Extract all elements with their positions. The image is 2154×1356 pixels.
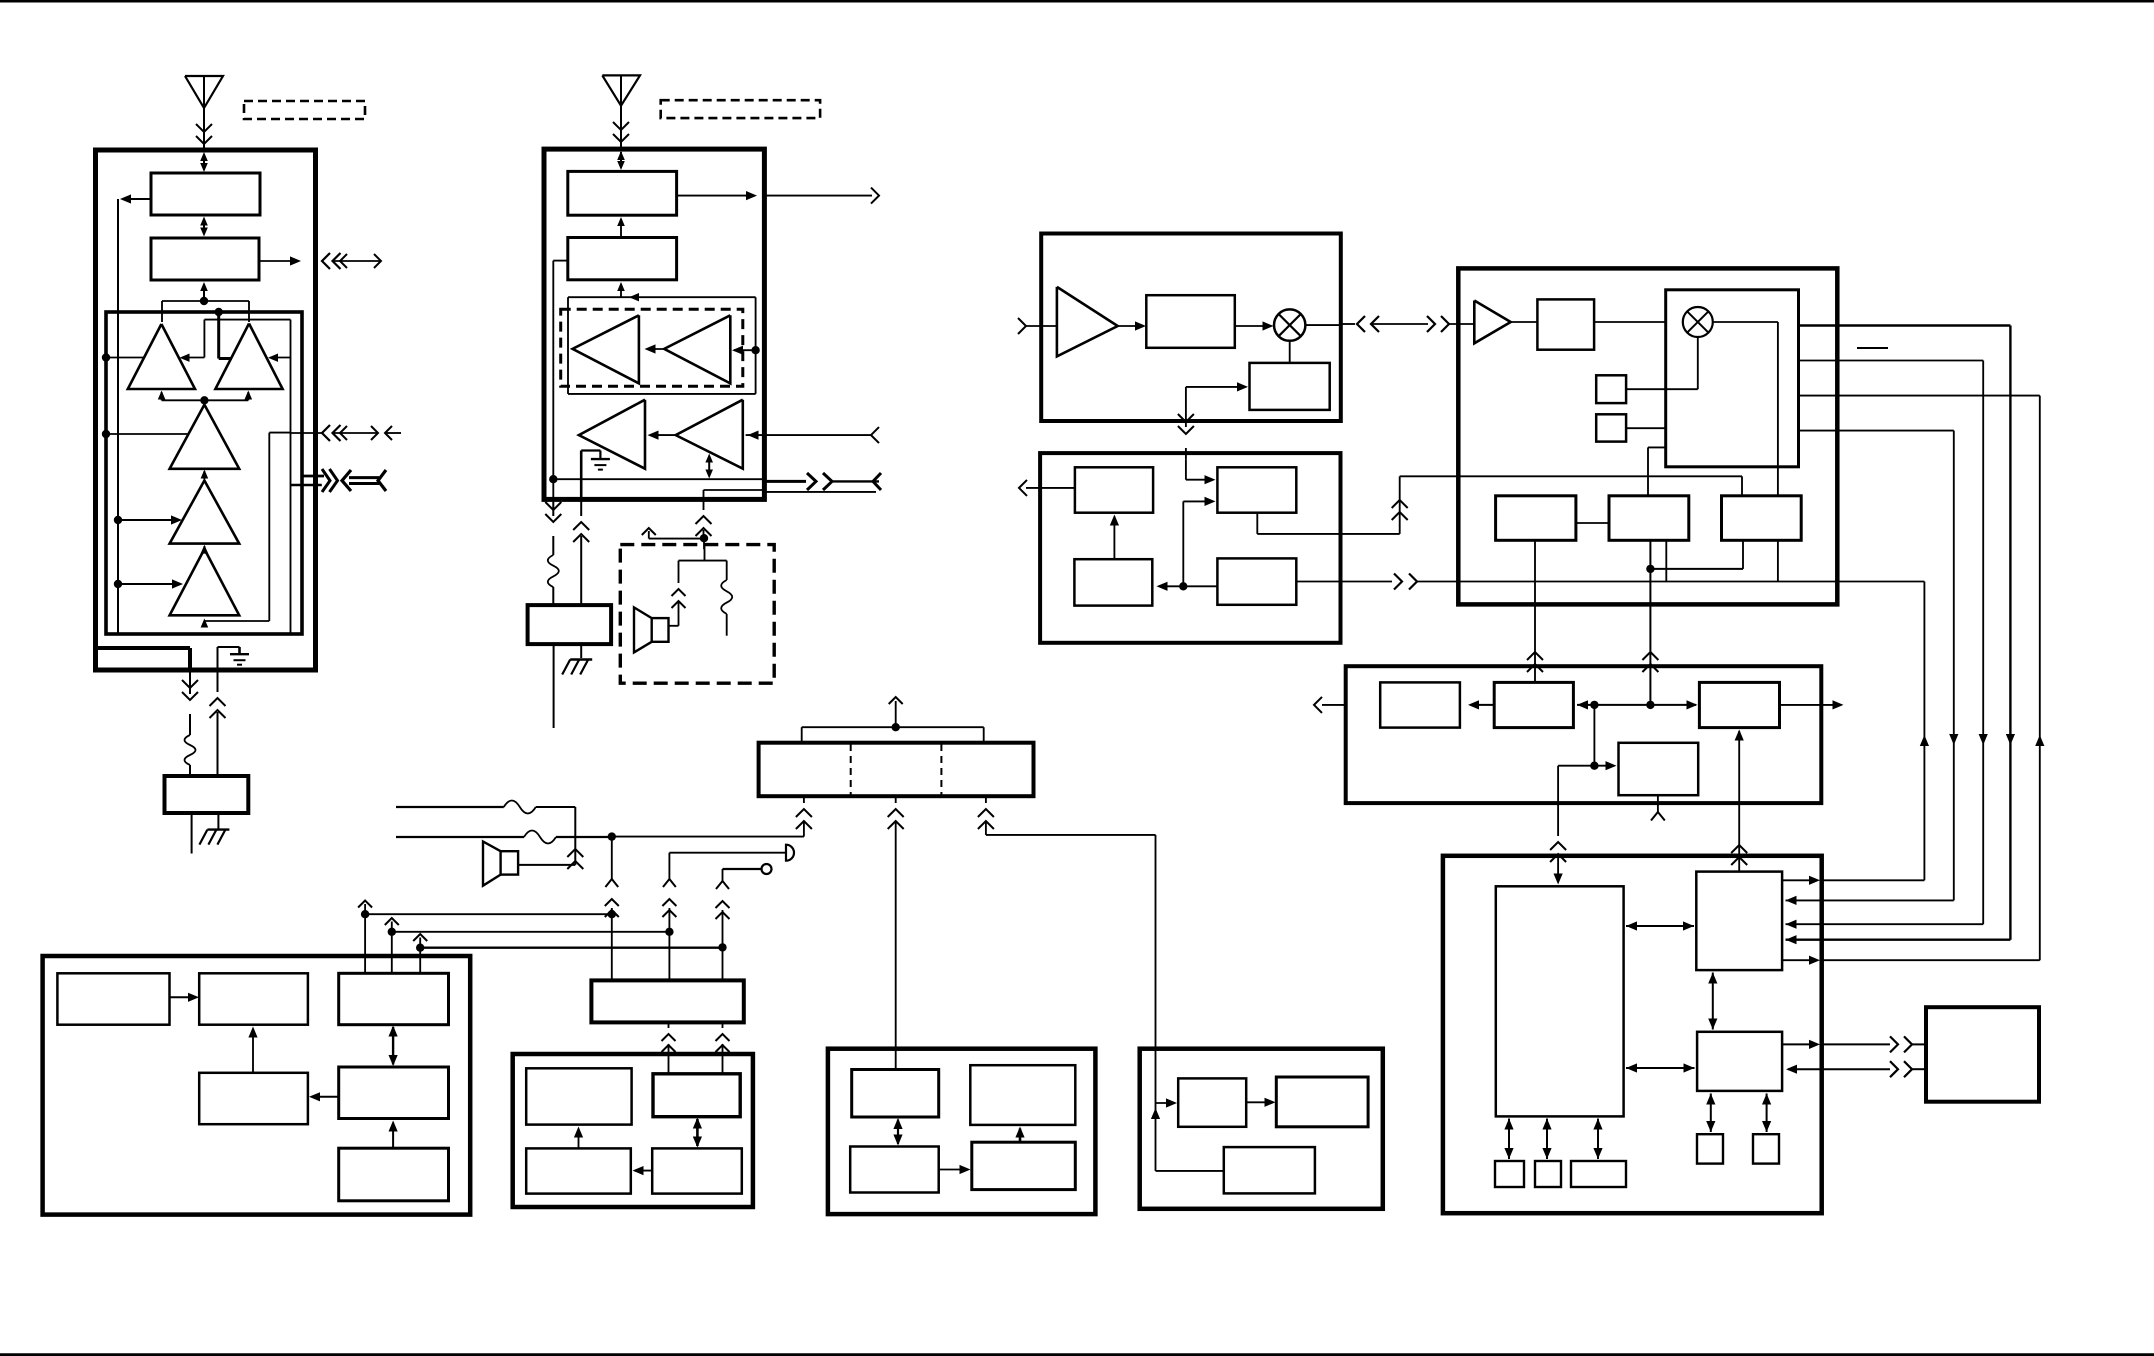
top border line bbox=[0, 0, 2154, 3]
rect R4d bbox=[1619, 743, 1699, 795]
bottom border line bbox=[0, 1353, 2154, 1356]
wire R3d to R3c arrow bbox=[1157, 582, 1218, 591]
rect xtal sq1 bbox=[1495, 1161, 1524, 1187]
wire R4b to R4a arrow bbox=[1468, 700, 1494, 709]
amplifier Q4 pre-driver (up) bbox=[170, 470, 240, 544]
wire R7b bus in line4 bbox=[1786, 935, 2011, 944]
wire feed and feedback into B7a bbox=[1151, 1098, 1224, 1171]
wire antenna2 feedline chevrons bbox=[613, 119, 629, 148]
wire ant-switch output to connector bbox=[259, 256, 301, 265]
module box R3 RX IF unit bbox=[1040, 453, 1340, 643]
wire B6d to B6b arrow bbox=[1015, 1127, 1024, 1143]
module box B7 memory unit bbox=[1140, 1049, 1383, 1209]
wire APC bias feed to Q1 Q2 bbox=[180, 320, 291, 362]
wire R3 output arrow left bbox=[1019, 480, 1075, 496]
amplifier Q1 (top-left, up) bbox=[128, 324, 195, 389]
dashed label box (antenna2) bbox=[661, 100, 820, 118]
module box R7 CPU unit bbox=[1443, 856, 1822, 1213]
amplifier RX A4 (lower-right) bbox=[676, 400, 743, 469]
rect TX VCO R1b bbox=[1250, 363, 1330, 410]
wire supply line L2 bbox=[385, 918, 670, 936]
rect sq3 bbox=[1697, 1134, 1723, 1163]
rect R4a bbox=[1380, 682, 1460, 727]
wire supply line L1 bbox=[358, 901, 616, 919]
module inner PA box (box1) bbox=[106, 312, 302, 634]
amplifier RX A1 (left) bbox=[573, 315, 639, 383]
wire R7a sub bidir arrows bbox=[1504, 1119, 1602, 1160]
module inner PLL IC box bbox=[1666, 290, 1799, 467]
wire branch arrow into R3b lower bbox=[1179, 497, 1215, 591]
ground G3 (box2 internal) bbox=[581, 451, 610, 500]
wire R7c to R8 upper with connector bbox=[1782, 1036, 1926, 1052]
wire thick supply step (box1 bottom-left) bbox=[96, 648, 191, 670]
wire R3b stub to PLL reference bbox=[1257, 513, 1399, 534]
wire bus line C y395 bbox=[1799, 396, 2040, 961]
wire box6 outputs to B5b bbox=[662, 1022, 730, 1073]
wire B5d to B5c arrow bbox=[633, 1166, 653, 1175]
rect R3b IF amp bbox=[1217, 467, 1296, 512]
rect B4a bbox=[57, 973, 169, 1024]
wire RF line out thick (box2) bbox=[764, 480, 806, 483]
wire riser x1400 with chevrons bbox=[1392, 476, 1408, 534]
wire APC rail vertical x118 bbox=[117, 199, 119, 634]
wire A2 to A1 arrow bbox=[645, 344, 665, 353]
wire handset lower line with coil to left bbox=[396, 831, 612, 844]
wire BPF left branch down bbox=[549, 261, 568, 500]
wire R7b up-feed to R4c bbox=[1731, 730, 1747, 872]
wire R7a-R7c bidir arrow bbox=[1626, 1063, 1695, 1072]
wire APC loop right riser x291 bbox=[290, 358, 292, 635]
amplifier Q3 driver (up) bbox=[170, 405, 240, 469]
rect B5a bbox=[526, 1068, 631, 1124]
wire speaker box internal bracket bbox=[669, 545, 727, 626]
dashed speaker box bbox=[620, 545, 774, 684]
wire bidir arrow antenna to duplexer bbox=[200, 152, 208, 172]
wire bidir arrow duplexer to ant-switch bbox=[200, 217, 208, 237]
amplifier R2 input buffer bbox=[1474, 301, 1537, 344]
rect Rb loop filter bbox=[1609, 496, 1689, 541]
mixer M2 bbox=[1683, 307, 1713, 337]
wire R4c output arrow right bbox=[1780, 700, 1844, 709]
wire coil branch in speaker box bbox=[721, 561, 732, 636]
wire PA output junction bracket bbox=[162, 282, 249, 322]
wire supply line L3 thick bbox=[413, 934, 722, 952]
wire box1 to battery-box left lead with coil bbox=[182, 670, 198, 776]
module box R1 TX IF unit bbox=[1041, 234, 1341, 422]
wire branch down to R7a bbox=[1550, 766, 1594, 885]
terminal small circle (PTT) bbox=[723, 864, 772, 874]
wire B4f to B4e arrow bbox=[389, 1121, 398, 1149]
wire B7a to B7b arrow bbox=[1246, 1098, 1275, 1107]
rect R7b interface bbox=[1696, 872, 1782, 971]
connector RF chevrons (box1 out) bbox=[322, 469, 338, 492]
wire VCO input arrow from below bbox=[1178, 382, 1248, 459]
wire B5b-B5d bidir arrow bbox=[693, 1118, 702, 1148]
wire R4 output arrow left bbox=[1314, 697, 1346, 713]
wire long run y476 into R2 Rc bbox=[1400, 476, 1742, 496]
wire loop bottom x118 to x291 bbox=[118, 633, 291, 635]
mixer M1 bbox=[1274, 309, 1305, 340]
wire B5c to B5a arrow bbox=[574, 1127, 583, 1149]
microphone MIC1 bbox=[669, 845, 794, 861]
wire mixer2 output right-down bbox=[1713, 322, 1778, 496]
rect Ra charge pump bbox=[1496, 496, 1576, 541]
rect R2a input filter bbox=[1537, 299, 1665, 349]
ground G1 (box1 internal) bbox=[218, 647, 250, 670]
rect B5b bbox=[653, 1074, 740, 1117]
rect B7b bbox=[1276, 1077, 1368, 1127]
wire mic line down with break bbox=[662, 853, 676, 981]
wire antenna1 feedline with connector chevrons bbox=[196, 121, 212, 148]
rect RX filter B3R bbox=[528, 605, 612, 644]
wire R8 to R7c lower with connector bbox=[1786, 1061, 1926, 1077]
wire L-line drops into B4c bbox=[365, 914, 420, 973]
wire R7b bus in line3 bbox=[1786, 920, 1984, 929]
speaker SP2 (handset) bbox=[483, 842, 575, 886]
rect B4c bbox=[339, 973, 449, 1024]
module box B6 logic unit bbox=[828, 1049, 1096, 1214]
wire filter to mixer arrow bbox=[1235, 321, 1274, 330]
wire PLL box stub to Rb bbox=[1648, 447, 1666, 495]
wire Rb output down to R4 with dot bbox=[1642, 540, 1658, 705]
wire B6c to B6d arrow bbox=[939, 1165, 971, 1174]
wire B4d to B4b arrow bbox=[248, 1027, 257, 1073]
rect B5d bbox=[652, 1148, 742, 1193]
wire mixer1 LO feed bbox=[1289, 341, 1291, 363]
wire RF return line (box2) bbox=[704, 490, 877, 499]
wire rail feed arrow to Q4 bbox=[114, 515, 182, 524]
wire R7b bus in line2 bbox=[1786, 896, 1954, 905]
wire bias tap to Q3 left bbox=[102, 430, 190, 438]
wire R7b bus out line1 bbox=[1782, 876, 1924, 885]
wire bus arrowheads bbox=[1920, 734, 2045, 746]
wire R3d output long run to bus bbox=[1296, 574, 1924, 590]
amplifier Q5 first stage (up) bbox=[170, 545, 240, 616]
amplifier RX A2 (right) bbox=[664, 315, 730, 383]
rect B5c bbox=[526, 1148, 631, 1193]
rect B4d bbox=[199, 1073, 308, 1124]
module box R2 PLL/VCO unit bbox=[1458, 268, 1837, 604]
module box B4 control unit bbox=[43, 956, 471, 1215]
connector RF fat arrow plug bbox=[342, 470, 386, 491]
module box1 TX PA unit outline bbox=[96, 150, 316, 670]
wire Rb dot branch to Rc bottom bbox=[1650, 540, 1743, 569]
wire x612 riser with break bbox=[605, 837, 619, 981]
connector chevrons between R1 and R2 bbox=[1357, 316, 1474, 332]
wire APC jog and Q5 base feed bbox=[201, 433, 291, 628]
wire arrow into BPF bottom bbox=[617, 282, 639, 301]
wire BPF to switch arrow bbox=[617, 217, 625, 238]
wire box1 ground lead to rect3 bbox=[210, 670, 226, 776]
module box R4 audio/control unit bbox=[1346, 666, 1822, 803]
wire box2 earpiece lead with coil bbox=[545, 499, 561, 605]
amplifier Q2 (top-right, up) bbox=[215, 324, 282, 390]
wire B4e to B4d arrow bbox=[309, 1092, 339, 1101]
terminal input chevron R1 bbox=[1018, 318, 1057, 334]
rect regulator box6 bbox=[591, 980, 743, 1022]
rect duplexer (box1 top) bbox=[151, 173, 260, 215]
wire R3c to R3a arrow bbox=[1110, 515, 1119, 560]
wire box2 bottom rail y479 bbox=[553, 478, 764, 480]
rect RX ant switch (box2 top) bbox=[568, 171, 677, 215]
module box B5 audio unit bbox=[513, 1054, 753, 1207]
antenna ANT1 bbox=[185, 76, 223, 121]
rect xtal Y2 bbox=[1596, 414, 1626, 441]
wire R4d fork terminal bbox=[1651, 795, 1665, 820]
rect Rc VCO bbox=[1722, 496, 1802, 541]
wire R7b-R7c bidir arrow bbox=[1708, 973, 1717, 1030]
wire RX amp loop ring bbox=[568, 297, 756, 394]
wire Ra output down to R4 bbox=[1527, 540, 1543, 682]
connector bar top bracket with arrow bbox=[802, 697, 984, 743]
wire Rb second stub to long bus bbox=[1665, 540, 1667, 581]
rect B6b bbox=[970, 1065, 1075, 1125]
rect B7c bbox=[1224, 1147, 1315, 1193]
rect B6d bbox=[972, 1142, 1076, 1189]
wire box2 output arrow right bbox=[677, 188, 879, 204]
wire A4 to A3 arrow bbox=[648, 431, 676, 440]
wire box2 ground-side lead bbox=[573, 499, 589, 605]
rect R7c EEPROM bbox=[1697, 1032, 1782, 1091]
label dash mark bbox=[1857, 347, 1888, 349]
rect R3a demod out bbox=[1075, 467, 1153, 512]
rect B4b bbox=[199, 973, 308, 1024]
rect xtal Y1 bbox=[1596, 375, 1626, 403]
rect sq4 bbox=[1753, 1134, 1779, 1163]
wire connector stub2 down to B6 bbox=[888, 796, 904, 1069]
wire B6a-B6c bidir arrow bbox=[893, 1118, 902, 1146]
wire open lead below B3R bbox=[553, 644, 555, 728]
antenna ANT2 bbox=[602, 75, 640, 119]
rect B6c bbox=[850, 1147, 939, 1193]
wire rail feed arrow to Q5 bbox=[114, 579, 183, 588]
wire duplexer output left to APC rail bbox=[120, 194, 151, 203]
wire speaker feed from box2 bbox=[642, 499, 712, 549]
connector glyph chevrons and arrow (y433) bbox=[322, 425, 401, 441]
amplifier TX buffer (right) bbox=[1057, 287, 1118, 357]
wire input into A4 from right terminal bbox=[746, 427, 879, 443]
wire RF output double-line (box1) bbox=[290, 476, 324, 485]
wire R4 horizontal bus with dots bbox=[1577, 700, 1698, 709]
rect B4e bbox=[339, 1067, 449, 1119]
amplifier RX A3 (lower-left) bbox=[579, 400, 645, 469]
wire xtal2 to PLL box bbox=[1626, 427, 1666, 429]
module box R8 display unit bbox=[1926, 1007, 2039, 1101]
ground G2 chassis hatch bbox=[199, 813, 229, 845]
connector glyph chevrons and arrow (y261) bbox=[322, 253, 381, 269]
rect R3d local amp bbox=[1217, 558, 1296, 604]
rect R4b bbox=[1494, 682, 1573, 727]
wire bus line E riser x1924 bbox=[1923, 582, 1925, 881]
rect TX filter R1a bbox=[1146, 295, 1235, 348]
wire xtal1 to mixer bbox=[1626, 337, 1698, 389]
rect antenna switch (box1) bbox=[151, 238, 259, 280]
dashed RX amp box (thick dashes) bbox=[561, 309, 743, 386]
wire driver output bracket to Q1 Q2 bases bbox=[158, 391, 252, 405]
rect system connector bar bbox=[759, 743, 1034, 797]
speaker SP1 bbox=[634, 607, 669, 652]
wire open lead below B3L bbox=[191, 813, 193, 854]
wire bus line D y430 bbox=[1799, 431, 1954, 901]
rect reset ic bbox=[1571, 1161, 1626, 1187]
rect xtal sq2 bbox=[1535, 1161, 1561, 1187]
rect RX BPF (box2) bbox=[568, 238, 677, 280]
rect R7a CPU core bbox=[1496, 886, 1624, 1116]
connector bar dashed dividers bbox=[851, 744, 942, 795]
wire APC line out through box edges bbox=[291, 432, 322, 434]
wire R7b bus out line5 bbox=[1782, 956, 2040, 965]
wire bus line B y360 bbox=[1799, 361, 1984, 925]
ground G4 chassis hatch below B3R bbox=[562, 644, 592, 674]
wire R7c sub bidir arrows bbox=[1706, 1094, 1771, 1133]
module box2 RX unit outline bbox=[544, 149, 764, 499]
rect B6a bbox=[852, 1070, 939, 1118]
wire dot feed into A2 bbox=[732, 346, 760, 355]
wire B4a to B4b arrow bbox=[170, 993, 200, 1002]
wire R7a-R7b bidir arrow bbox=[1626, 921, 1694, 930]
wire Ra-Rb link bbox=[1576, 522, 1609, 524]
dashed label box (antenna1) bbox=[244, 101, 365, 119]
wire connector stub3 to B7 bbox=[978, 796, 1156, 1103]
wire dot drop to R4d bbox=[1590, 705, 1616, 770]
wire TR switch bidir arrow bbox=[705, 454, 713, 479]
rect B4f bbox=[339, 1148, 449, 1201]
wire Rc bottom stub bbox=[1777, 540, 1779, 581]
wire mixer1 out to box edge bbox=[1305, 324, 1355, 325]
wire B4c-B4e bidir arrow bbox=[389, 1026, 398, 1067]
rect R3c detector bbox=[1074, 559, 1152, 605]
rect battery/filter B3L bbox=[165, 776, 249, 813]
wire amp to TX filter arrow bbox=[1118, 321, 1146, 330]
wire bidir arrow ant2 to switch bbox=[617, 151, 625, 170]
wire thick tap on PA box top bbox=[215, 308, 233, 359]
wire bus line A thick y325 bbox=[1799, 326, 2011, 940]
wire R1 feed arrow into R3b bbox=[1186, 460, 1216, 485]
wire PTT line down with break bbox=[716, 869, 730, 980]
wire handset upper line with coil bbox=[396, 801, 583, 870]
wire connector stub1 to handset lines bbox=[608, 796, 812, 841]
wire bias tap to Q1 left bbox=[102, 353, 144, 361]
connector RF chevrons (box2) bbox=[807, 473, 881, 490]
rect R4c bbox=[1699, 682, 1779, 727]
rect B7a bbox=[1178, 1078, 1246, 1126]
